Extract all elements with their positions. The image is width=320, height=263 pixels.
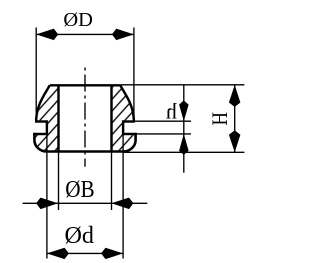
svg-text:Ød: Ød <box>65 222 95 249</box>
svg-text:ØD: ØD <box>63 10 93 31</box>
svg-text:h: h <box>166 99 177 124</box>
svg-text:ØB: ØB <box>65 176 95 203</box>
svg-text:H: H <box>207 112 232 126</box>
